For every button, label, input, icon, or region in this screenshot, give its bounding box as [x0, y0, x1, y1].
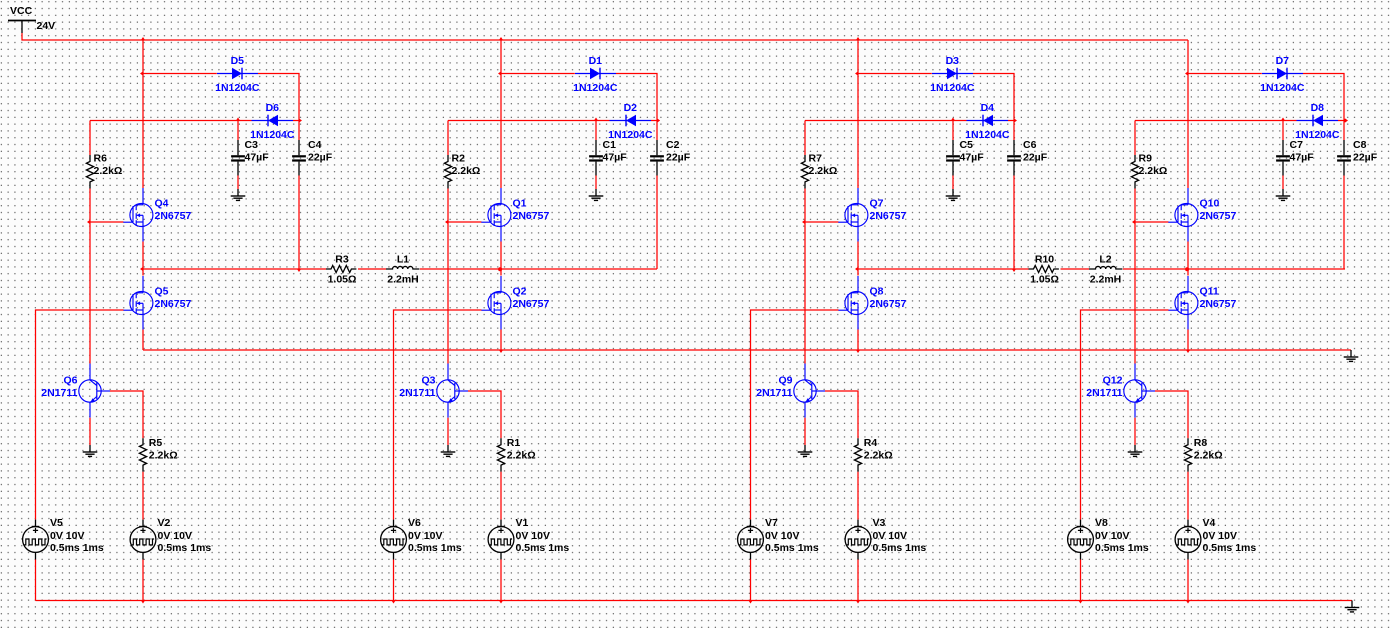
junction x=501 y=73.5: [498, 71, 501, 75]
wire L1 to section 2 output: [420, 268, 657, 270]
junction bottom bus x=1188: [1186, 600, 1190, 603]
transistor Q12 2N1711 BJT: [1086, 364, 1155, 418]
wire capacitor C4 top lead: [298, 121, 300, 141]
wire diode D5 anode: [143, 73, 217, 75]
svg-text:47µF: 47µF: [1290, 152, 1315, 164]
svg-text:2.2mH: 2.2mH: [387, 274, 419, 286]
wire Q5 source to bus: [142, 330, 144, 351]
junction x=1345 y=120.5: [1345, 118, 1348, 122]
wire Q11 source to bus: [1187, 330, 1189, 351]
ground under Q3: [441, 445, 456, 456]
svg-text:R3: R3: [335, 253, 349, 265]
wire capacitor C6 top lead: [1013, 121, 1015, 141]
wire output node section 3: [858, 268, 1029, 270]
wire VCC top bus: [22, 33, 1188, 40]
svg-text:0.5ms 1ms: 0.5ms 1ms: [516, 542, 570, 554]
junction x=299 y=269: [297, 269, 301, 272]
junction x=1283 y=120.5: [1281, 118, 1285, 121]
diode D7 1N1204C: [1260, 55, 1305, 94]
svg-text:0.5ms 1ms: 0.5ms 1ms: [158, 542, 212, 554]
wire gate Q4: [90, 221, 124, 223]
wire source bus y=350: [143, 349, 1351, 351]
svg-text:R6: R6: [94, 153, 108, 165]
svg-text:Q3: Q3: [421, 375, 435, 387]
junction x=1014 y=269: [1012, 269, 1016, 272]
svg-text:0V 10V: 0V 10V: [50, 530, 84, 542]
source V5 pulse 0V 10V: [23, 517, 104, 560]
svg-text:R8: R8: [1194, 437, 1208, 449]
wire between Q1 source and Q2 drain: [500, 242, 502, 276]
wire gate Q1: [448, 221, 482, 223]
svg-text:2.2kΩ: 2.2kΩ: [94, 165, 123, 177]
capacitor C8 22uF: [1337, 139, 1378, 176]
svg-text:2N1711: 2N1711: [399, 387, 435, 399]
wire bottom bus: [36, 600, 1353, 602]
resistor R2 2.2k: [444, 153, 480, 189]
svg-text:0.5ms 1ms: 0.5ms 1ms: [765, 542, 819, 554]
svg-text:R2: R2: [452, 153, 466, 165]
transistor Q7 2N6757 upper MOSFET: [838, 188, 906, 242]
source V3 pulse 0V 10V: [845, 517, 926, 560]
diode D6 1N1204C: [250, 102, 295, 141]
wire gate Q7: [805, 221, 839, 223]
svg-text:D5: D5: [231, 55, 245, 67]
svg-text:Q6: Q6: [63, 375, 77, 387]
junction x=1188 y=350: [1186, 350, 1190, 353]
junction x=501 y=269: [498, 267, 502, 271]
svg-text:L2: L2: [1099, 253, 1111, 265]
svg-text:1N1204C: 1N1204C: [930, 82, 975, 94]
capacitor C3 47uF: [231, 139, 269, 176]
svg-text:Q11: Q11: [1200, 286, 1219, 298]
junction top bus x=501: [499, 37, 503, 40]
wire drain vertical section 4: [1187, 40, 1189, 188]
wire output node section 1: [143, 268, 326, 270]
svg-text:2N6757: 2N6757: [1200, 298, 1237, 310]
wire R8 to V4: [1187, 472, 1189, 520]
wire drain vertical section 3: [857, 40, 859, 188]
transistor Q8 2N6757 lower MOSFET: [838, 276, 906, 330]
svg-text:2.2kΩ: 2.2kΩ: [864, 450, 893, 462]
svg-text:C7: C7: [1290, 139, 1304, 151]
wire node line y=120.5 section 1: [90, 120, 252, 122]
svg-text:2.2kΩ: 2.2kΩ: [452, 165, 481, 177]
transistor Q10 2N6757 upper MOSFET: [1168, 188, 1236, 242]
wire Q9 emitter: [804, 418, 806, 445]
wire Q12 emitter: [1134, 418, 1136, 445]
wire gate Q8 from V7: [751, 310, 839, 520]
junction x=143 y=269: [140, 267, 143, 271]
wire Q6 base to R5: [110, 391, 143, 438]
junction x=657 y=120.5: [657, 118, 660, 122]
resistor R10 1.05: [1029, 253, 1059, 285]
wire Q9 base to R4: [825, 391, 858, 438]
svg-text:Q10: Q10: [1200, 198, 1220, 210]
svg-text:0V 10V: 0V 10V: [1095, 530, 1129, 542]
svg-text:R10: R10: [1035, 253, 1054, 265]
svg-text:Q7: Q7: [870, 198, 884, 210]
svg-text:2N6757: 2N6757: [1200, 210, 1237, 222]
wire R1 to V1: [500, 472, 502, 520]
svg-text:V8: V8: [1095, 517, 1108, 529]
source V6 pulse 0V 10V: [381, 517, 462, 560]
junction x=805 y=222: [802, 220, 805, 224]
svg-text:0V 10V: 0V 10V: [516, 530, 550, 542]
svg-text:R7: R7: [809, 153, 823, 165]
transistor Q9 2N1711 BJT: [756, 364, 825, 418]
capacitor C7 47uF: [1276, 139, 1314, 176]
svg-text:V6: V6: [408, 517, 421, 529]
svg-text:2N6757: 2N6757: [870, 210, 907, 222]
junction bottom bus x=1080.5: [1078, 600, 1082, 603]
svg-text:1N1204C: 1N1204C: [1260, 82, 1305, 94]
wire capacitor C1 bottom lead: [595, 176, 597, 190]
wire diode D7 anode: [1188, 73, 1262, 75]
transistor Q4 2N6757 upper MOSFET: [123, 188, 191, 242]
wire diode D5 cathode to corner: [258, 74, 299, 121]
svg-text:0.5ms 1ms: 0.5ms 1ms: [408, 542, 462, 554]
wire L2 to section 4 output: [1123, 268, 1345, 270]
wire Q3 base to R1: [468, 391, 501, 438]
diode D8 1N1204C: [1295, 102, 1340, 141]
junction bottom bus x=393.5: [391, 600, 395, 603]
ground right end of source bus: [1344, 350, 1359, 361]
svg-text:V1: V1: [516, 517, 529, 529]
wire capacitor C7 bottom lead: [1282, 176, 1284, 190]
svg-text:2.2kΩ: 2.2kΩ: [1139, 165, 1168, 177]
svg-text:0V 10V: 0V 10V: [873, 530, 907, 542]
wire diode D6 anode stub: [293, 120, 299, 122]
svg-text:V7: V7: [765, 517, 778, 529]
wire V2 bottom lead: [142, 560, 144, 601]
wire between Q10 source and Q11 drain: [1187, 242, 1189, 276]
wire R3 to L1: [358, 268, 386, 270]
svg-text:Q1: Q1: [513, 198, 527, 210]
junction x=1014 y=120.5: [1014, 118, 1017, 122]
diode D1 1N1204C: [573, 55, 618, 94]
svg-text:2N1711: 2N1711: [1086, 387, 1122, 399]
svg-text:47µF: 47µF: [603, 152, 628, 164]
svg-text:2N6757: 2N6757: [155, 298, 192, 310]
transistor Q11 2N6757 lower MOSFET: [1168, 276, 1236, 330]
svg-text:V3: V3: [873, 517, 886, 529]
wire capacitor C7 top lead: [1282, 121, 1284, 141]
wire capacitor C5 bottom lead: [952, 176, 954, 190]
wire Q12 base to R8: [1155, 391, 1188, 438]
diode D5 1N1204C: [215, 55, 260, 94]
junction top bus x=858: [856, 37, 860, 40]
resistor R4 2.2k: [854, 437, 892, 472]
junction x=858 y=73.5: [855, 71, 858, 75]
inductor L2 2.2mH: [1089, 253, 1122, 285]
wire Q8 source to bus: [857, 330, 859, 351]
wire capacitor C5 top lead: [952, 121, 954, 141]
resistor R5 2.2k: [139, 437, 177, 472]
svg-text:C1: C1: [603, 139, 617, 151]
wire gate Q11 from V8: [1081, 310, 1169, 520]
svg-text:0V 10V: 0V 10V: [1203, 530, 1237, 542]
capacitor C5 47uF: [946, 139, 984, 176]
diode D2 1N1204C: [608, 102, 653, 141]
svg-text:0.5ms 1ms: 0.5ms 1ms: [1095, 542, 1149, 554]
wire between Q7 source and Q8 drain: [857, 242, 859, 276]
wire node line y=120.5 section 2: [448, 120, 610, 122]
transistor Q2 2N6757 lower MOSFET: [481, 276, 549, 330]
wire diode D4 anode stub: [1008, 120, 1014, 122]
svg-text:2N6757: 2N6757: [513, 210, 550, 222]
svg-text:VCC: VCC: [10, 5, 33, 17]
ground under Q9: [798, 445, 813, 456]
wire V1 bottom lead: [500, 560, 502, 601]
svg-text:47µF: 47µF: [960, 152, 985, 164]
svg-text:D8: D8: [1311, 102, 1325, 114]
svg-text:22µF: 22µF: [1353, 152, 1378, 164]
svg-text:22µF: 22µF: [1023, 152, 1048, 164]
junction x=299 y=120.5: [299, 118, 302, 122]
svg-text:2.2kΩ: 2.2kΩ: [507, 450, 536, 462]
svg-text:24V: 24V: [37, 20, 56, 32]
svg-text:0V 10V: 0V 10V: [158, 530, 192, 542]
wire diode D7 cathode to corner: [1303, 74, 1344, 121]
junction bottom bus x=750.5: [748, 600, 752, 603]
source V2 pulse 0V 10V: [130, 517, 211, 560]
junction x=858 y=269: [855, 267, 858, 271]
svg-text:1.05Ω: 1.05Ω: [1030, 274, 1059, 286]
diode D3 1N1204C: [930, 55, 975, 94]
source V1 pulse 0V 10V: [488, 517, 569, 560]
svg-text:L1: L1: [397, 253, 409, 265]
ground under C7: [1276, 189, 1291, 200]
transistor Q5 2N6757 lower MOSFET: [123, 276, 191, 330]
svg-text:2.2mH: 2.2mH: [1090, 274, 1122, 286]
svg-text:R4: R4: [864, 437, 878, 449]
svg-text:C3: C3: [245, 139, 259, 151]
wire R4 to V3: [857, 472, 859, 520]
svg-text:C5: C5: [960, 139, 974, 151]
junction x=238 y=120.5: [236, 118, 240, 121]
svg-text:2N6757: 2N6757: [870, 298, 907, 310]
ground under C5: [946, 189, 961, 200]
wire R7 top lead: [804, 121, 806, 156]
wire capacitor C8 bottom lead: [1343, 176, 1345, 270]
capacitor C6 22uF: [1007, 139, 1048, 176]
svg-text:2N1711: 2N1711: [41, 387, 77, 399]
wire diode D8 anode stub: [1338, 120, 1344, 122]
wire V8 bottom lead: [1080, 560, 1082, 601]
svg-text:0.5ms 1ms: 0.5ms 1ms: [50, 542, 104, 554]
wire R2 top lead: [447, 121, 449, 156]
transistor Q6 2N1711 BJT: [41, 364, 110, 418]
wire capacitor C1 top lead: [595, 121, 597, 141]
source V4 pulse 0V 10V: [1175, 517, 1256, 560]
svg-text:2N6757: 2N6757: [513, 298, 550, 310]
wire capacitor C8 top lead: [1343, 121, 1345, 141]
wire gate Q2 from V6: [394, 310, 482, 520]
wire capacitor C2 bottom lead: [656, 176, 658, 270]
resistor R6 2.2k: [86, 153, 122, 189]
resistor R8 2.2k: [1184, 437, 1222, 472]
svg-text:1.05Ω: 1.05Ω: [328, 274, 357, 286]
svg-text:0V 10V: 0V 10V: [408, 530, 442, 542]
junction x=953 y=120.5: [951, 118, 955, 121]
svg-text:Q12: Q12: [1103, 375, 1123, 387]
transistor Q1 2N6757 upper MOSFET: [481, 188, 549, 242]
wire Q3 emitter: [447, 418, 449, 445]
svg-text:2N1711: 2N1711: [756, 387, 792, 399]
wire gate Q5 from V5: [36, 310, 124, 520]
wire V5 bottom lead: [35, 560, 37, 601]
capacitor C4 22uF: [292, 139, 333, 176]
svg-text:0.5ms 1ms: 0.5ms 1ms: [1203, 542, 1257, 554]
svg-text:1N1204C: 1N1204C: [573, 82, 618, 94]
junction x=1344 y=120.5: [1344, 118, 1347, 122]
resistor R7 2.2k: [801, 153, 837, 189]
wire Q2 source to bus: [500, 330, 502, 351]
junction x=858 y=350: [856, 350, 860, 353]
ground right end of bottom bus: [1345, 601, 1360, 612]
junction bottom bus x=501: [499, 600, 503, 603]
svg-text:47µF: 47µF: [245, 152, 270, 164]
wire R6 top lead: [89, 121, 91, 156]
svg-text:2N6757: 2N6757: [155, 210, 192, 222]
wire node line y=120.5 section 3: [805, 120, 967, 122]
wire capacitor C3 top lead: [237, 121, 239, 141]
wire node line y=120.5 section 4: [1135, 120, 1297, 122]
wire capacitor C2 top lead: [656, 121, 658, 141]
svg-text:2.2kΩ: 2.2kΩ: [1194, 450, 1223, 462]
wire diode D3 anode: [858, 73, 932, 75]
junction top bus x=143: [141, 37, 145, 40]
wire V6 bottom lead: [393, 560, 395, 601]
wire R6 bottom / collector vertical: [89, 189, 91, 364]
wire R9 bottom / collector vertical: [1134, 189, 1136, 364]
wire diode D1 cathode to corner: [616, 74, 657, 121]
svg-text:Q5: Q5: [155, 286, 169, 298]
source V8 pulse 0V 10V: [1068, 517, 1149, 560]
svg-text:C4: C4: [308, 139, 322, 151]
svg-text:D4: D4: [981, 102, 995, 114]
svg-text:D1: D1: [589, 55, 603, 67]
svg-text:C8: C8: [1353, 139, 1367, 151]
wire V3 bottom lead: [857, 560, 859, 601]
ground under C1: [589, 189, 604, 200]
junction x=90 y=222: [87, 220, 90, 224]
wire R7 bottom / collector vertical: [804, 189, 806, 364]
svg-text:V5: V5: [50, 517, 63, 529]
power symbol VCC 24V: [8, 5, 55, 33]
ground under Q12: [1128, 445, 1143, 456]
svg-text:Q9: Q9: [778, 375, 792, 387]
resistor R9 2.2k: [1131, 153, 1167, 189]
svg-text:R9: R9: [1139, 153, 1153, 165]
svg-text:V4: V4: [1203, 517, 1216, 529]
wire R2 bottom / collector vertical: [447, 189, 449, 364]
svg-text:C6: C6: [1023, 139, 1037, 151]
svg-text:V2: V2: [158, 517, 171, 529]
wire drain vertical section 2: [500, 40, 502, 188]
junction x=143 y=73.5: [140, 71, 143, 75]
svg-text:R5: R5: [149, 437, 163, 449]
junction x=1135 y=222: [1132, 220, 1135, 224]
wire gate Q10: [1135, 221, 1169, 223]
wire diode D2 anode stub: [651, 120, 657, 122]
transistor Q3 2N1711 BJT: [399, 364, 468, 418]
junction x=1188 y=269: [1185, 267, 1189, 271]
wire capacitor C3 bottom lead: [237, 176, 239, 190]
capacitor C1 47uF: [589, 139, 627, 176]
wire V4 bottom lead: [1187, 560, 1189, 601]
capacitor C2 22uF: [650, 139, 691, 176]
svg-text:1N1204C: 1N1204C: [215, 82, 260, 94]
inductor L1 2.2mH: [386, 253, 419, 285]
svg-text:0.5ms 1ms: 0.5ms 1ms: [873, 542, 927, 554]
junction x=657 y=120.5: [657, 118, 660, 122]
wire V7 bottom lead: [750, 560, 752, 601]
junction x=501 y=350: [499, 350, 503, 353]
svg-text:2.2kΩ: 2.2kΩ: [809, 165, 838, 177]
svg-text:0V 10V: 0V 10V: [765, 530, 799, 542]
junction x=448 y=222: [445, 220, 448, 224]
wire drain vertical section 1: [142, 40, 144, 188]
svg-text:Q4: Q4: [155, 198, 169, 210]
ground under C3: [231, 189, 246, 200]
wire capacitor C4 bottom lead: [298, 176, 300, 270]
junction x=1188 y=73.5: [1185, 71, 1188, 75]
svg-text:Q2: Q2: [513, 286, 527, 298]
junction bottom bus x=858: [856, 600, 860, 603]
svg-text:D6: D6: [266, 102, 280, 114]
svg-text:Q8: Q8: [870, 286, 884, 298]
wire capacitor C6 bottom lead: [1013, 176, 1015, 270]
svg-text:C2: C2: [666, 139, 680, 151]
svg-text:D3: D3: [946, 55, 960, 67]
svg-text:22µF: 22µF: [308, 152, 333, 164]
svg-text:D7: D7: [1276, 55, 1290, 67]
resistor R3 1.05: [326, 253, 356, 285]
wire diode D1 anode: [501, 73, 575, 75]
wire R9 top lead: [1134, 121, 1136, 156]
svg-text:R1: R1: [507, 437, 521, 449]
source V7 pulse 0V 10V: [738, 517, 819, 560]
resistor R1 2.2k: [497, 437, 535, 472]
wire Q6 emitter: [89, 418, 91, 445]
diode D4 1N1204C: [965, 102, 1010, 141]
svg-text:2.2kΩ: 2.2kΩ: [149, 450, 178, 462]
wire between Q4 source and Q5 drain: [142, 242, 144, 276]
svg-text:D2: D2: [624, 102, 638, 114]
junction x=596 y=120.5: [594, 118, 598, 121]
wire R5 to V2: [142, 472, 144, 520]
wire R10 to L2: [1061, 268, 1090, 270]
svg-text:22µF: 22µF: [666, 152, 691, 164]
ground under Q6: [83, 445, 98, 456]
wire diode D3 cathode to corner: [973, 74, 1014, 121]
junction bottom bus x=143: [141, 600, 145, 603]
